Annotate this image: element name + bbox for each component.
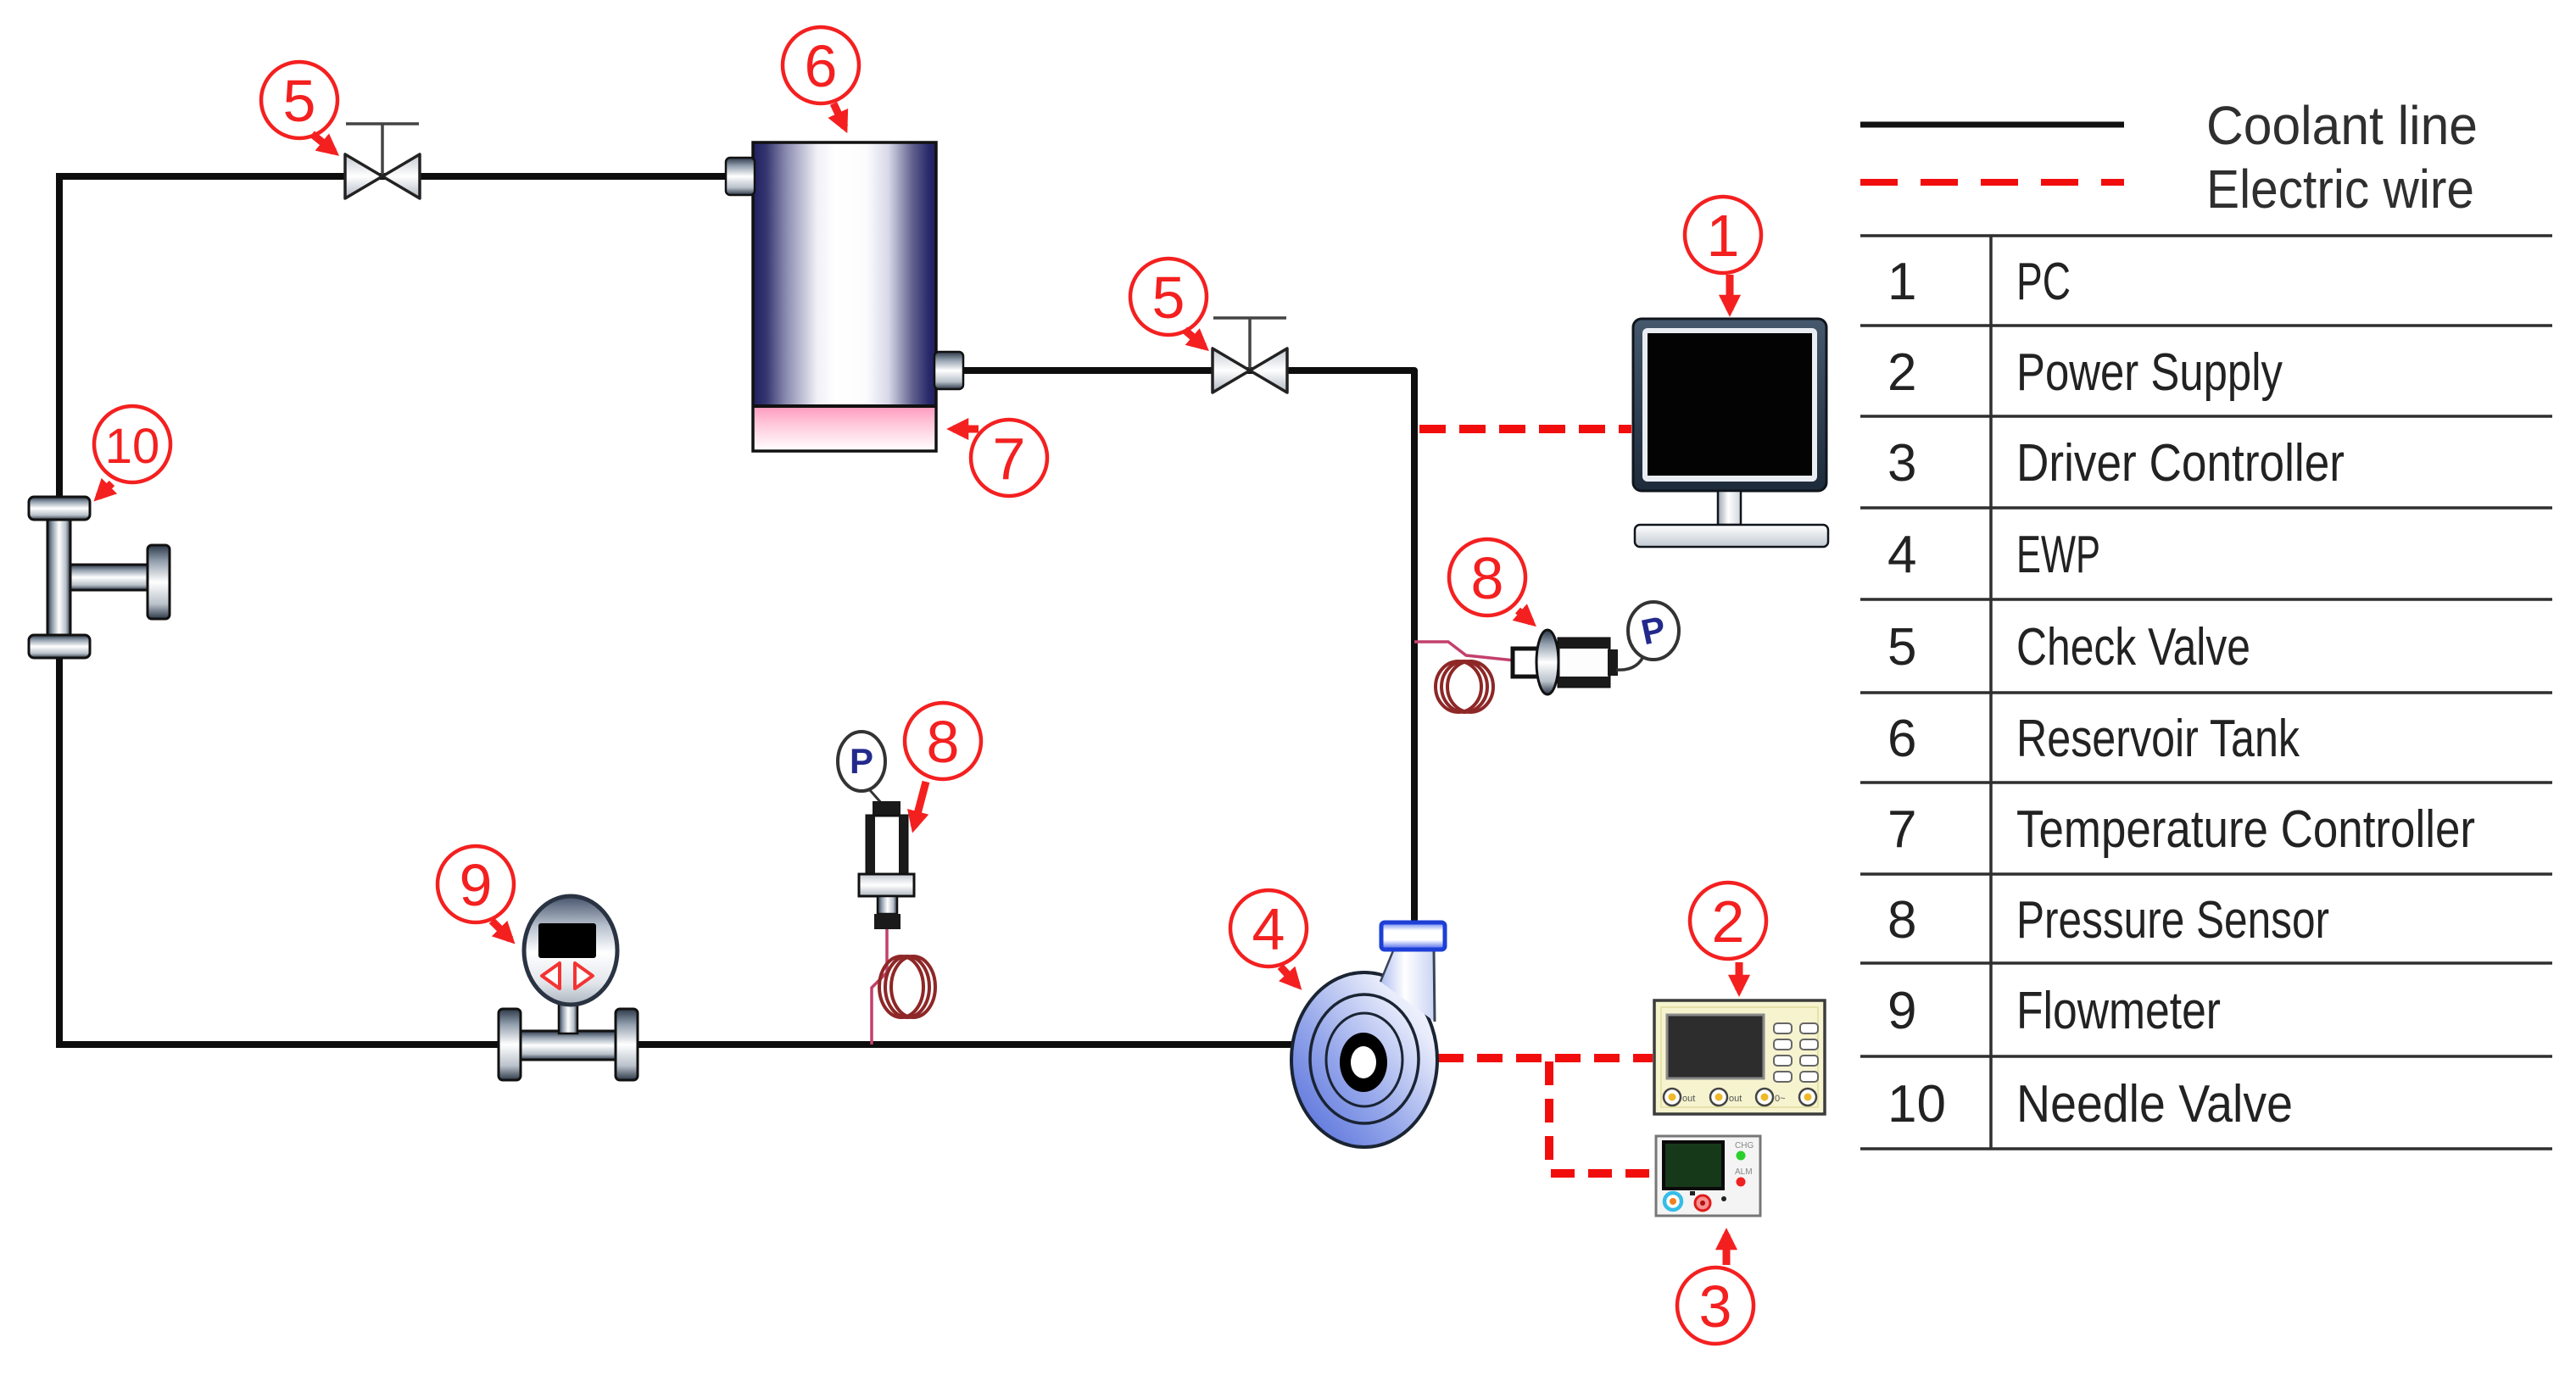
pressure sensor 8 left tip [874,914,900,929]
svg-text:1: 1 [1707,203,1740,269]
power supply 2 screen [1667,1015,1764,1078]
svg-text:4: 4 [1887,526,1916,584]
svg-text:7: 7 [1887,800,1916,859]
flowmeter 9 head [524,896,617,1005]
flowmeter 9 pipe [521,1031,616,1060]
flowmeter 9 buttons [542,963,593,989]
wire electric branch to driver controller dashed [1551,1169,1654,1178]
label 1 [1685,197,1761,273]
pressure sensor 8 left P gauge [838,732,885,791]
tank right port [934,352,963,389]
pressure sensor 8 left stem [878,896,897,914]
svg-text:8: 8 [1887,891,1916,950]
svg-text:EWP: EWP [2016,526,2100,584]
pressure sensor 8 right P gauge [1628,602,1679,660]
label 3 [1677,1267,1754,1344]
wire electric branch vertical dashed [1545,1061,1553,1173]
label 5 top [261,62,337,138]
label 9 [438,846,514,922]
svg-text:3: 3 [1887,434,1916,493]
svg-text:Driver Controller: Driver Controller [2016,434,2345,493]
driver controller 3 screen [1664,1142,1723,1189]
svg-text:4: 4 [1252,896,1285,962]
label 4 [1230,890,1307,967]
label 6 [783,27,859,103]
label 10 [94,406,170,482]
power supply 2 box [1654,1000,1825,1114]
svg-text:CHG: CHG [1735,1141,1754,1150]
wire coolant left vertical upper [56,173,63,499]
needle valve 10 handle cap [148,545,170,619]
check valve 5 top body [345,154,420,198]
svg-text:Temperature Controller: Temperature Controller [2016,800,2475,859]
pressure sensor 8 left link [869,789,883,805]
PC 1 base [1635,525,1828,547]
svg-text:Check Valve: Check Valve [2016,618,2250,677]
pressure sensor 8 right tip [1608,649,1618,676]
svg-text:ALM: ALM [1735,1167,1753,1177]
legend coolant line sample [1860,122,2124,128]
svg-text:PC: PC [2016,253,2071,311]
EWP pump 4 ring outer [1310,994,1419,1123]
wire coolant left vertical lower [56,655,63,1048]
wire coolant bottom horizontal [56,1041,1310,1048]
svg-text:5: 5 [1152,265,1185,331]
svg-text:1: 1 [1887,253,1916,311]
reservoir tank 6 body [753,142,936,406]
svg-text:6: 6 [1887,710,1916,768]
flowmeter 9 stem [559,1001,577,1033]
svg-text:out: out [1729,1094,1742,1104]
needle valve 10 bottom flange [29,635,90,658]
svg-text:Power Supply: Power Supply [2016,343,2283,402]
svg-text:9: 9 [460,852,493,918]
wire electric pump to power supply dashed [1438,1054,1653,1062]
temperature controller 7 pink band [755,408,934,450]
PC 1 monitor frame [1633,319,1826,491]
PC 1 screen [1648,333,1812,476]
wire sensor pigtail right [1414,642,1514,660]
wire sensor pigtail left [872,929,887,1045]
pressure sensor 8 left cap [873,801,900,816]
needle valve 10 arm [70,565,150,590]
driver controller 3 box [1656,1136,1760,1216]
power supply 2 buttons [1774,1023,1818,1082]
pressure sensor 8 right body [1558,638,1609,687]
coil right [1436,661,1493,712]
power supply 2 knobs [1664,1089,1816,1106]
svg-text:10: 10 [1887,1075,1946,1134]
coil left [879,956,935,1017]
flowmeter 9 display [538,923,596,958]
needle valve 10 body [47,520,70,638]
svg-text:P: P [850,741,873,781]
flowmeter 9 right flange [616,1009,638,1080]
tank divider line [753,404,936,408]
svg-text:Electric wire: Electric wire [2206,159,2474,220]
tank left port [726,158,755,195]
svg-text:Needle Valve: Needle Valve [2016,1075,2293,1134]
EWP pump 4 hub [1340,1033,1387,1092]
needle valve 10 top flange [29,497,90,520]
svg-text:5: 5 [283,68,316,134]
EWP pump 4 volute [1291,972,1437,1147]
wire coolant top horizontal [59,173,729,180]
tank border [753,142,936,451]
label 7 [971,420,1047,496]
pressure sensor 8 right flange ring [1536,630,1558,694]
check valve 5 middle handle [1213,318,1286,370]
wire coolant tank outlet to pump [960,370,1414,926]
EWP pump 4 inlet flange [1381,922,1445,950]
svg-text:6: 6 [805,33,838,99]
EWP pump 4 ring inner [1326,1013,1402,1106]
svg-text:0~: 0~ [1775,1094,1786,1104]
svg-text:7: 7 [993,426,1026,492]
svg-text:2: 2 [1712,889,1745,955]
check valve 5 top handle [346,124,419,175]
pressure sensor 8 right connector [1513,649,1540,677]
svg-text:5: 5 [1887,618,1916,677]
svg-text:Reservoir Tank: Reservoir Tank [2016,710,2300,768]
label 8 left [905,703,981,779]
pressure sensor 8 left flange [859,874,914,896]
svg-text:8: 8 [927,709,960,775]
svg-text:2: 2 [1887,343,1916,402]
label 2 [1690,883,1766,959]
wire electric PC dashed [1419,425,1631,433]
pressure sensor 8 left body [867,816,907,874]
svg-text:3: 3 [1699,1273,1732,1340]
check valve 5 middle body [1213,348,1287,393]
label 8 right [1449,539,1525,616]
PC 1 bezel [1642,328,1817,482]
legend table text [1887,253,2475,1134]
svg-text:8: 8 [1471,545,1504,611]
pressure sensor 8 right link [1616,653,1645,670]
legend electric wire sample [1860,179,2124,186]
flowmeter 9 left flange [499,1009,521,1080]
PC 1 neck [1718,491,1741,525]
svg-text:Coolant line: Coolant line [2206,95,2478,156]
svg-text:10: 10 [105,419,160,474]
svg-text:Pressure Sensor: Pressure Sensor [2016,891,2329,950]
driver controller 3 knobs [1664,1193,1681,1210]
label 5 middle [1130,259,1207,335]
svg-text:Flowmeter: Flowmeter [2016,982,2221,1040]
svg-text:9: 9 [1887,982,1916,1040]
svg-text:out: out [1682,1094,1695,1104]
legend table lines [1860,236,2552,1149]
EWP pump 4 funnel [1380,949,1435,1022]
